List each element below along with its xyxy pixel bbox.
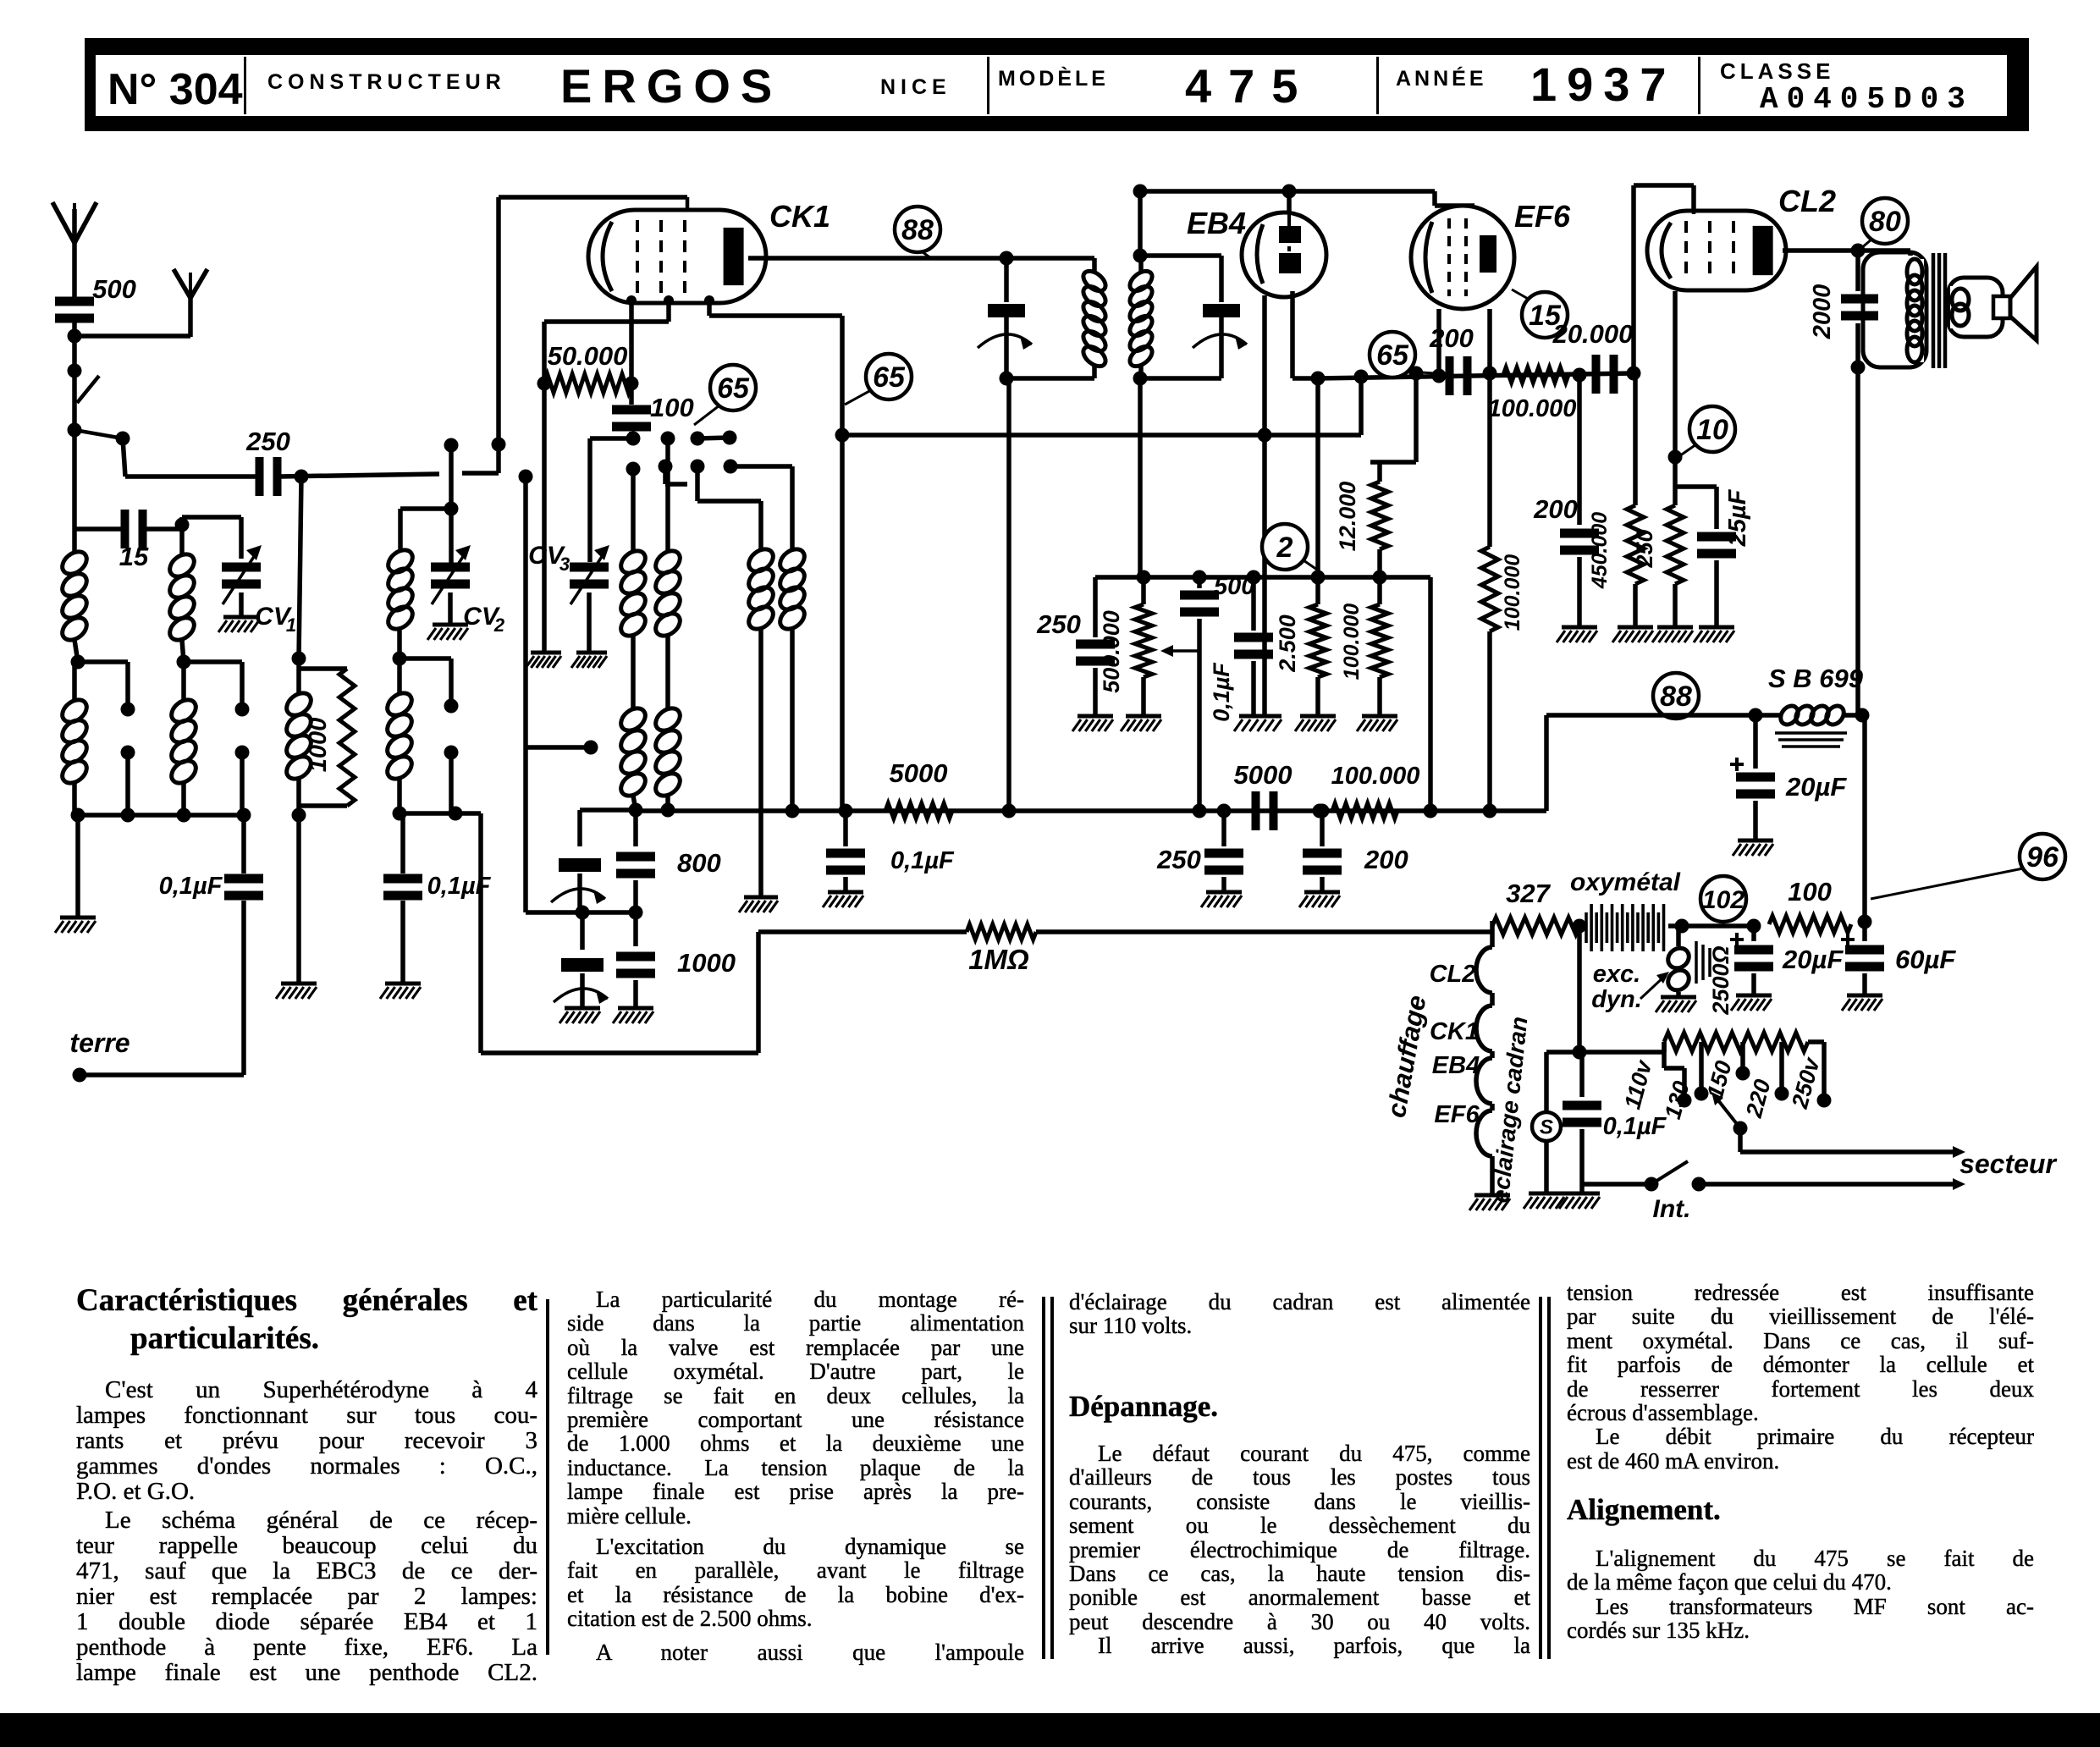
wire HT right column: [1858, 715, 1872, 929]
ground (60uF): [1842, 995, 1882, 1011]
capacitor 250 (det): [1036, 577, 1115, 714]
ground (100.000 det): [1357, 716, 1397, 731]
node 88 (IF grid): [895, 207, 940, 258]
svg-text:15: 15: [119, 542, 149, 571]
wire grid contact links: [590, 438, 730, 562]
oxymetal cell: [1579, 904, 1689, 951]
wire antenna junction: [68, 329, 191, 344]
svg-text:327: 327: [1506, 879, 1551, 908]
svg-text:20.000: 20.000: [1552, 319, 1634, 349]
svg-text:110v: 110v: [1619, 1056, 1657, 1112]
label 110v: [1619, 1056, 1657, 1112]
wire oxymetal to 20uF2: [1678, 919, 1761, 934]
svg-text:200: 200: [1533, 494, 1578, 524]
wire EF6 cathode: [1432, 309, 1447, 383]
svg-text:2: 2: [493, 614, 505, 636]
antenna 2: [174, 269, 207, 337]
svg-text:2500Ω: 2500Ω: [1708, 945, 1733, 1015]
node 15: [1512, 289, 1568, 338]
band switch contacts (osc): [444, 438, 506, 474]
ground (trimmer): [559, 1008, 600, 1023]
label CL2: [1778, 184, 1836, 218]
ground (excitation): [1656, 997, 1696, 1012]
svg-text:100.000: 100.000: [1340, 603, 1364, 680]
resistor 1M: [758, 924, 1492, 940]
wire oxymetal left drop: [1573, 926, 1587, 1060]
bus B- (main): [636, 808, 1546, 813]
ground (20uF first): [1733, 840, 1773, 856]
wire CK1 top: [499, 197, 687, 446]
capacitor 200 (bus): [1303, 804, 1408, 891]
wire 643 rail: [537, 377, 552, 652]
selector taps: [1664, 1042, 1789, 1108]
svg-text:25µF: 25µF: [1724, 488, 1751, 547]
tube EF6: [1411, 206, 1514, 309]
svg-text:200: 200: [1364, 845, 1408, 874]
svg-text:CL2: CL2: [1778, 184, 1836, 218]
svg-text:5000: 5000: [890, 758, 948, 788]
tube EB4: [1242, 212, 1326, 297]
tube CK1: [588, 197, 766, 303]
coil L2a: [166, 529, 199, 670]
svg-text:88: 88: [901, 214, 934, 246]
text column 2: [567, 1287, 1024, 1664]
core output transformer: [1933, 253, 1945, 368]
node 10: [1677, 406, 1735, 458]
label 1M: [968, 944, 1029, 975]
svg-text:exc.: exc.: [1593, 961, 1640, 988]
label Int: [1653, 1195, 1691, 1223]
wire EF6 anode riser: [1634, 185, 1694, 373]
wire CV1 ground lead: [239, 592, 244, 615]
wire dial lamp: [1546, 1052, 1579, 1112]
wire contact row x533: [400, 659, 459, 813]
svg-text:65: 65: [1376, 339, 1409, 372]
wire AVC riser: [1354, 370, 1369, 436]
svg-text:20µF: 20µF: [1785, 772, 1847, 802]
wire AVC drop: [1138, 378, 1143, 577]
svg-text:S B 699: S B 699: [1768, 664, 1864, 693]
node 96: [1871, 834, 2065, 899]
wire L3 link: [393, 627, 407, 666]
label 2500 ohm: [1708, 945, 1733, 1015]
output transformer secondary: [1948, 278, 2003, 337]
variable capacitor CV3: [528, 542, 609, 604]
wire B+ top (y845): [1546, 708, 1870, 812]
wire trimmer row: [526, 910, 636, 915]
ground (200 bus): [1299, 892, 1340, 907]
svg-text:0,1µF: 0,1µF: [890, 847, 955, 874]
wire ground rail: [75, 815, 80, 916]
capacitor 800: [616, 810, 721, 920]
label exc dyn: [1591, 961, 1669, 1013]
capacitor 5000 (series in bus): [1234, 760, 1293, 830]
bus AVC (y523): [842, 433, 1361, 438]
coil L6 (osc): [697, 466, 777, 896]
wire EB4 top plate: [1282, 185, 1297, 215]
wire L1 link: [71, 640, 85, 670]
label 250v: [1787, 1054, 1825, 1112]
ground bus left: [71, 808, 251, 823]
coil L1a (antenna primary): [58, 547, 91, 644]
variable capacitor CV2: [431, 545, 505, 636]
label 12.000: [1335, 482, 1360, 552]
core excitation: [1696, 941, 1710, 984]
resistor 1000: [299, 669, 355, 806]
svg-text:EB4: EB4: [1432, 1052, 1480, 1079]
resistor 100 (filter): [1769, 877, 1851, 933]
node 65 c: [1370, 332, 1435, 378]
text column 1: [76, 1281, 537, 1358]
resistor 250 (CL2 cathode): [1632, 505, 1684, 626]
label secteur: [1959, 1149, 2057, 1179]
wire EB4 diode 2: [1293, 291, 1326, 386]
wire CK1 screen: [709, 300, 850, 811]
capacitor 0,1uF (bus): [826, 811, 955, 890]
variable capacitor CV1: [222, 545, 296, 636]
svg-text:CK1: CK1: [769, 199, 830, 234]
svg-text:EB4: EB4: [1187, 206, 1246, 240]
svg-text:5000: 5000: [1234, 760, 1293, 790]
label eclairage cadran: [1487, 1015, 1533, 1204]
wire long bottom bus: [481, 813, 758, 1053]
svg-text:2.500: 2.500: [1275, 614, 1300, 673]
resistor mains selector: [1664, 1033, 1832, 1108]
wire x1191 column: [1002, 378, 1017, 818]
capacitor 500 (det): [1180, 573, 1254, 818]
capacitor 20.000: [1552, 319, 1641, 394]
svg-text:65: 65: [873, 361, 906, 394]
svg-text:3: 3: [559, 554, 570, 575]
coil L2b: [168, 662, 201, 815]
wire to 250 cap: [123, 438, 125, 477]
ground (potentiometer): [1121, 716, 1161, 731]
wire contact row x151: [78, 662, 135, 815]
svg-text:65: 65: [717, 372, 750, 405]
excitation coil 2500: [1664, 926, 1693, 995]
svg-text:100.000: 100.000: [1331, 763, 1420, 790]
ground (20uF second): [1731, 995, 1772, 1011]
svg-text:2: 2: [1276, 532, 1293, 564]
wire cathode link: [544, 302, 669, 383]
label terre: [69, 1028, 130, 1058]
wire 1000 column: [295, 470, 309, 983]
capacitor 500 (antenna): [55, 274, 136, 335]
coil L4b: [617, 636, 650, 818]
ground (CV2): [427, 625, 468, 640]
svg-text:100: 100: [650, 393, 694, 422]
ground (cathode rail): [526, 653, 561, 668]
resistor 5000 (bus): [885, 758, 952, 818]
capacitor 20uF (second filter): [1730, 926, 1844, 994]
svg-text:12.000: 12.000: [1335, 482, 1360, 552]
capacitor 60uF: [1841, 922, 1956, 994]
svg-text:0,1µF: 0,1µF: [1209, 662, 1234, 722]
svg-text:CL2: CL2: [1430, 961, 1476, 988]
svg-text:10: 10: [1696, 414, 1728, 446]
svg-text:450.000: 450.000: [1588, 512, 1612, 589]
coil L7 (osc): [730, 466, 808, 818]
label CK1: [769, 199, 830, 234]
wire CV3 ground lead: [587, 592, 592, 651]
svg-text:102: 102: [1702, 886, 1744, 914]
switch Int: [1582, 1161, 1965, 1192]
resistor 100.000 (screen): [1481, 373, 1524, 818]
svg-text:S: S: [1540, 1116, 1553, 1139]
svg-text:Int.: Int.: [1653, 1195, 1691, 1223]
svg-text:150: 150: [1702, 1058, 1737, 1101]
svg-text:0,1µF: 0,1µF: [1603, 1113, 1667, 1140]
svg-text:130: 130: [1660, 1078, 1695, 1121]
svg-text:100.000: 100.000: [1488, 395, 1577, 422]
coil IF1 primary: [1006, 258, 1109, 378]
coil L4a: [617, 469, 650, 641]
svg-text:EF6: EF6: [1434, 1101, 1480, 1128]
svg-text:1: 1: [286, 614, 296, 636]
ground (1000): [276, 984, 317, 999]
coil IF1 secondary: [1127, 249, 1156, 386]
svg-text:secteur: secteur: [1959, 1149, 2057, 1179]
svg-text:250: 250: [1036, 609, 1081, 639]
svg-text:CK1: CK1: [1430, 1018, 1479, 1045]
svg-text:terre: terre: [69, 1028, 130, 1058]
ground (CV3): [571, 653, 607, 668]
label 220: [1741, 1077, 1776, 1121]
node 88 b: [1653, 673, 1699, 719]
label CL2 heater: [1430, 961, 1476, 988]
label EB4 heater: [1432, 1052, 1480, 1079]
label chauffage: [1381, 993, 1432, 1120]
svg-text:80: 80: [1869, 206, 1901, 238]
ground (EB4 + 0,1uF AF): [1234, 716, 1281, 731]
ground (250 bus): [1201, 892, 1242, 907]
header box: [85, 38, 2029, 131]
speaker: [1993, 267, 2037, 340]
svg-text:50.000: 50.000: [548, 341, 628, 371]
wire EF6 screen: [1483, 309, 1497, 381]
resistor 2.500: [1275, 577, 1326, 714]
core SB699: [1775, 733, 1847, 747]
ground (0,1uF 2nd): [380, 984, 421, 999]
svg-text:88: 88: [1660, 681, 1692, 713]
node 65 b: [845, 354, 912, 405]
coil L1b (antenna secondary): [58, 662, 91, 815]
svg-text:100: 100: [1788, 877, 1832, 907]
ground (450.000): [1612, 627, 1653, 642]
resistor 100.000 (det): [1340, 577, 1388, 714]
ground (cap 250 det): [1072, 716, 1113, 731]
bottom black bar: [0, 1713, 2100, 1747]
wire y445 (EF6 grid coupling): [1318, 373, 1634, 378]
trimmer 1000 column: [554, 912, 608, 1006]
capacitor 0,1uF (input): [159, 815, 263, 1075]
ground (CV1): [218, 617, 259, 632]
node 2: [1262, 524, 1317, 570]
wire transformer primary bottom: [1851, 361, 1866, 375]
ground (2.500): [1295, 716, 1336, 731]
band switch rows (CK1 grid): [626, 431, 738, 477]
ground (0,1uF mains): [1559, 1193, 1600, 1209]
switch (antenna): [68, 371, 100, 438]
capacitor 250 (bus): [1156, 804, 1243, 891]
trimmer IF1 secondary: [1140, 256, 1247, 378]
label EF6 heater: [1434, 1101, 1480, 1128]
wire CK1 anode: [748, 251, 1094, 266]
svg-text:250: 250: [245, 427, 290, 456]
svg-text:20µF: 20µF: [1782, 945, 1844, 974]
svg-text:2000: 2000: [1809, 284, 1836, 340]
bus dots: [839, 804, 853, 818]
coil L5a: [652, 438, 685, 641]
label 130: [1660, 1078, 1695, 1121]
selector switch arm: [1711, 1092, 1748, 1136]
label oxymetal: [1570, 868, 1681, 896]
trimmer IF1 primary: [978, 258, 1032, 386]
svg-text:1000: 1000: [305, 718, 332, 773]
wire CV1 link: [182, 517, 241, 559]
wire left rail down: [72, 430, 77, 552]
wire secteur line 1: [1740, 1128, 1965, 1158]
resistor 100.000 (bus): [1313, 763, 1420, 818]
ground (25uF): [1694, 627, 1734, 642]
trimmer 800 column: [551, 810, 636, 920]
tube CL2: [1647, 185, 1786, 290]
wire CK1 pins: [626, 295, 714, 306]
ground (200 cathode): [1557, 627, 1597, 642]
wire CL2 cathode: [1668, 291, 1683, 505]
label EB4: [1187, 206, 1246, 240]
capacitor 2000: [1809, 251, 1878, 715]
potentiometer 500.000: [1099, 577, 1199, 714]
text column 3: [1069, 1290, 1530, 1338]
capacitor 15: [74, 510, 190, 571]
wire terre: [73, 1068, 245, 1083]
svg-text:100.000: 100.000: [1501, 554, 1524, 631]
capacitor 0,1uF (2nd): [383, 813, 492, 982]
wire x621 rail: [519, 470, 533, 913]
wire CL2 anode: [1783, 244, 1910, 258]
ground (cap 1000): [613, 1008, 653, 1023]
text column 4: [1567, 1281, 2034, 1473]
svg-text:EF6: EF6: [1514, 199, 1571, 234]
svg-text:1000: 1000: [677, 948, 736, 978]
choke SB699: [1778, 703, 1865, 728]
label 150: [1702, 1058, 1737, 1101]
svg-text:200: 200: [1429, 323, 1474, 353]
ground (left rail): [55, 918, 96, 933]
wire CV2 column: [444, 445, 459, 564]
bus CV2 bottom: [393, 807, 482, 821]
wire detector drop: [1311, 378, 1326, 585]
output transformer primary: [1863, 252, 1926, 367]
resistor 50.000: [544, 341, 631, 393]
capacitor 200 (coupling): [1429, 323, 1474, 395]
capacitor 1000: [616, 912, 736, 1006]
ground (250 CL2): [1652, 627, 1693, 642]
heater chain: [1476, 932, 1492, 1193]
label SB699: [1768, 664, 1864, 693]
capacitor 100 (grid): [612, 302, 694, 438]
wire det row y682: [1095, 570, 1430, 585]
svg-text:60µF: 60µF: [1895, 945, 1956, 974]
ground (heater): [1469, 1195, 1510, 1210]
wire contact row x286: [184, 662, 250, 815]
svg-text:800: 800: [677, 848, 721, 878]
node 65 a: [694, 365, 756, 425]
svg-text:250: 250: [1632, 529, 1657, 568]
node S (dial lamp): [1532, 1112, 1561, 1141]
wire IF1 secondary top: [1133, 185, 1475, 256]
resistor 100.000 (coupling): [1488, 367, 1587, 422]
resistor 12.000: [1370, 366, 1424, 578]
svg-text:96: 96: [2026, 841, 2059, 873]
wire EB4 cathode: [1258, 295, 1272, 714]
svg-text:0,1µF: 0,1µF: [159, 873, 223, 900]
capacitor 250 (series): [125, 427, 439, 496]
resistor 327: [1492, 879, 1587, 934]
wire selector feed: [1579, 1042, 1664, 1052]
wire antenna down: [68, 336, 82, 378]
svg-text:1MΩ: 1MΩ: [968, 944, 1029, 975]
ground (0,1uF bus): [823, 892, 863, 907]
svg-text:oxymétal: oxymétal: [1570, 868, 1681, 896]
wire CV2 ground lead: [448, 592, 453, 623]
ground (osc coil): [739, 897, 778, 912]
capacitor 25uF: [1675, 487, 1751, 626]
svg-text:220: 220: [1741, 1077, 1776, 1121]
capacitor 20uF (first filter): [1730, 715, 1847, 839]
column rules: [546, 1299, 549, 1655]
wire det to bus: [1424, 577, 1438, 818]
ground (dial lamp): [1524, 1141, 1564, 1209]
coil 1000 (parallel): [283, 652, 316, 823]
svg-text:500.000: 500.000: [1099, 610, 1124, 693]
label CK1 heater: [1430, 1018, 1479, 1045]
coil L3a (RF): [384, 509, 451, 634]
capacitor 200 (cathode): [1533, 375, 1599, 626]
svg-text:dyn.: dyn.: [1591, 986, 1642, 1013]
wire osc contact: [526, 741, 598, 755]
svg-text:250: 250: [1156, 845, 1201, 874]
coil L3b: [383, 659, 416, 813]
capacitor 0,1uF (AF): [1209, 570, 1273, 722]
svg-text:500: 500: [92, 274, 136, 304]
label EF6: [1514, 199, 1571, 234]
svg-text:chauffage: chauffage: [1381, 993, 1432, 1120]
node 80: [1860, 198, 1908, 249]
coil L5b: [652, 636, 685, 818]
antenna: [52, 202, 96, 279]
switch blade 2: [74, 430, 130, 446]
resistor 450.000: [1588, 373, 1644, 626]
capacitor 0,1uF (mains): [1563, 1052, 1667, 1192]
node 102: [1700, 876, 1746, 924]
